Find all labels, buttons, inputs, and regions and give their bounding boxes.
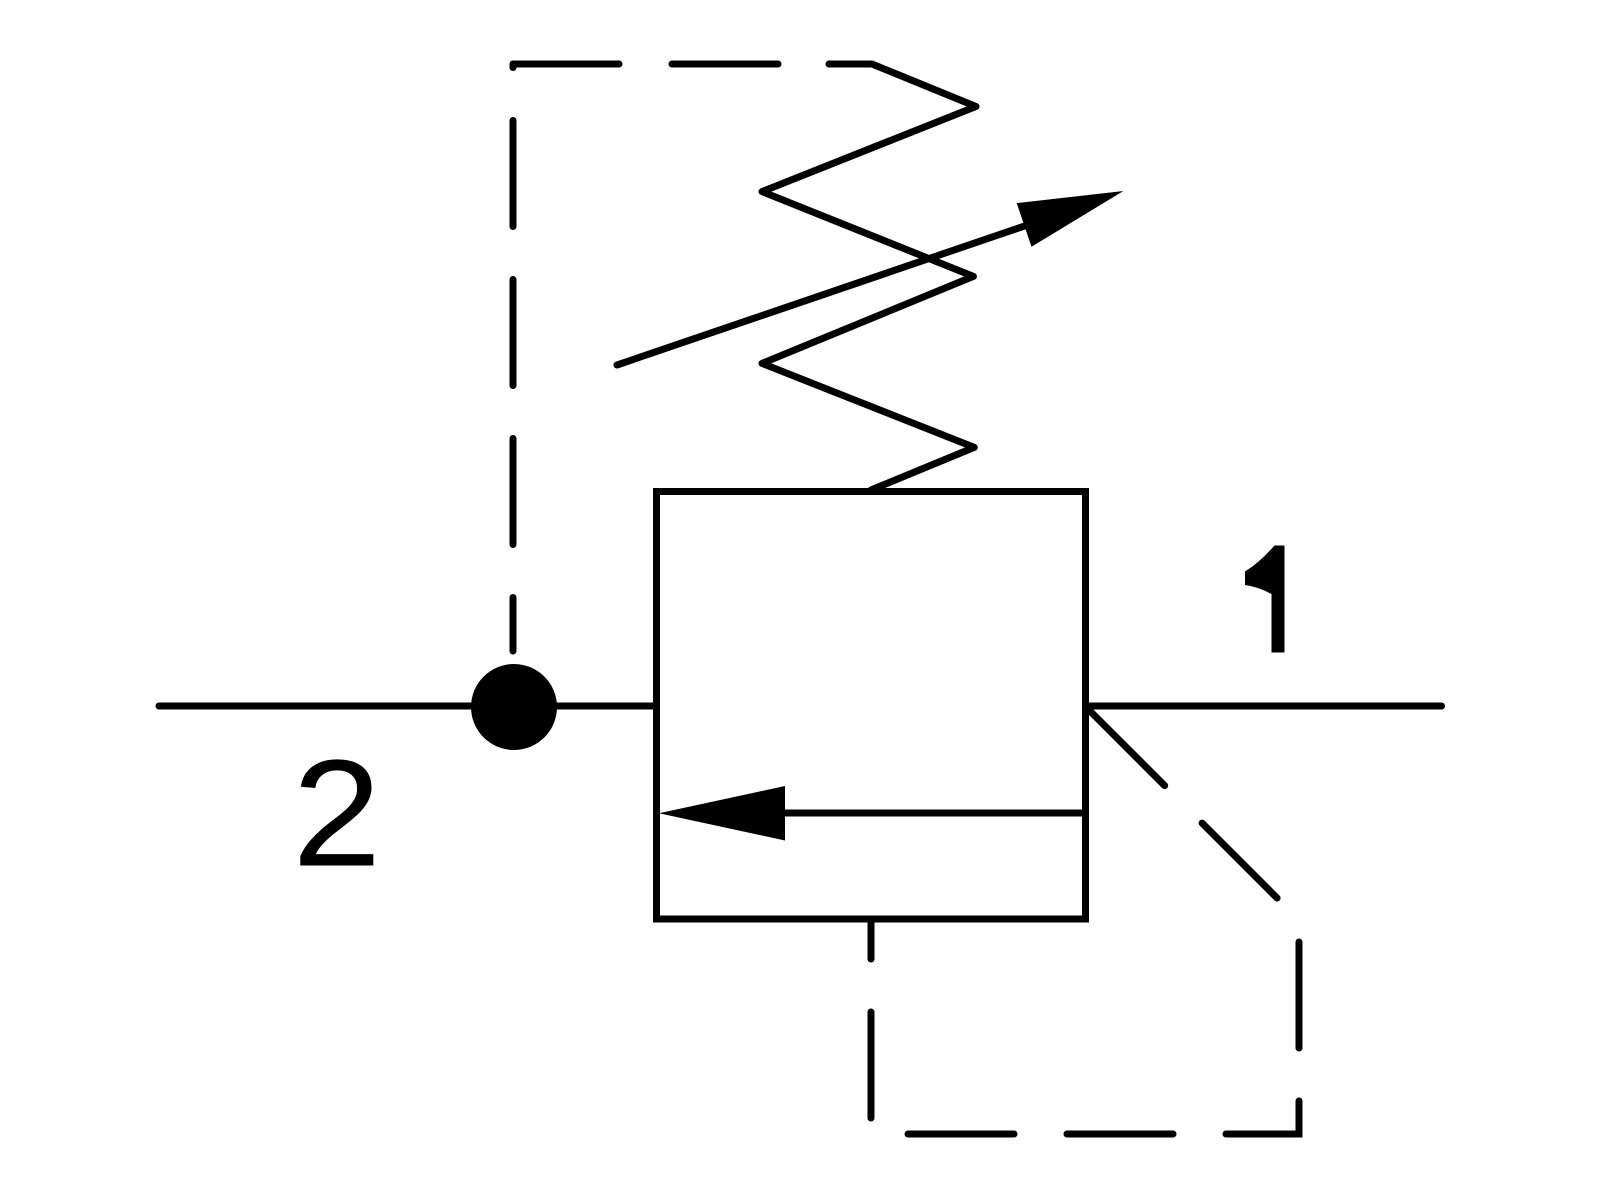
adjustment arrow shaft xyxy=(617,219,1045,365)
label 2 xyxy=(300,759,373,865)
label 1 xyxy=(1245,546,1285,653)
pilot line: left vertical dashed xyxy=(510,64,517,651)
valve body box xyxy=(657,492,1086,920)
wire: port 2 line (left) xyxy=(159,703,660,710)
internal flow arrow shaft xyxy=(780,810,1085,817)
pilot line: bottom-right dashed loop with solid stub xyxy=(871,706,1299,1134)
pilot line: top horizontal dashed xyxy=(513,61,829,68)
internal flow arrowhead xyxy=(659,786,785,841)
adjustment arrowhead xyxy=(1017,191,1124,247)
node: junction dot xyxy=(471,664,557,750)
wire: port 1 line (right) xyxy=(1082,703,1442,710)
spring (zigzag, adjustable) xyxy=(762,64,976,490)
